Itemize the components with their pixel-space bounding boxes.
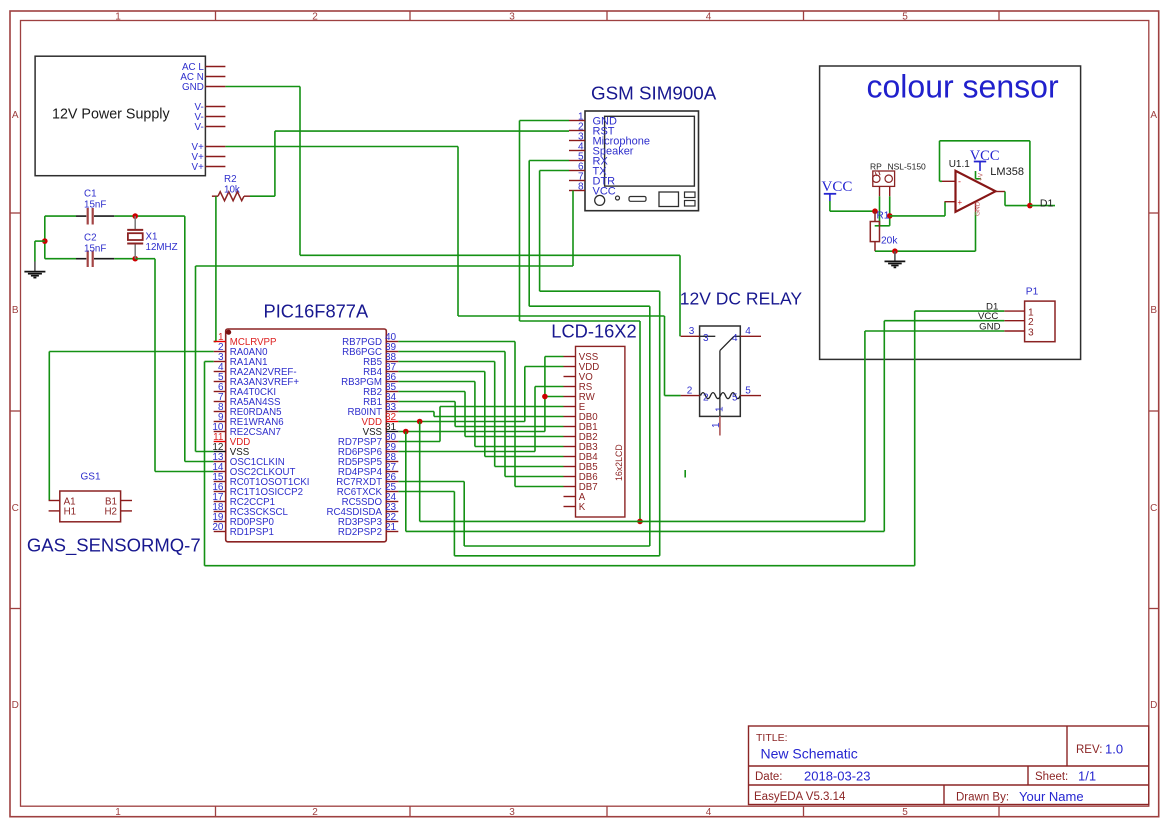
svg-text:1: 1: [115, 12, 121, 23]
svg-text:4: 4: [706, 807, 712, 818]
capacitor C1 plates: [88, 208, 93, 225]
relay coil pin 5 stub: [740, 395, 761, 397]
LCD pin RW: [564, 392, 596, 403]
capacitor C2 lead black left: [76, 258, 86, 260]
PIC pin 14 OSC2CLKOUT: [212, 462, 295, 478]
PIC pin 22 RD3PSP3: [338, 512, 398, 528]
wire: PIC pin34 to LCD DB1: [398, 402, 563, 427]
svg-text:20k: 20k: [881, 236, 898, 247]
svg-text:P1: P1: [1026, 287, 1039, 298]
wire: PIC pin30 to LCD E: [398, 407, 563, 442]
title block row divider 1: [749, 765, 1149, 767]
relay coil pin 2 stub: [681, 395, 700, 397]
PIC pin 21 RD2PSP2: [338, 522, 398, 538]
connector P1 body box: [1025, 301, 1055, 342]
svg-text:Your Name: Your Name: [1019, 789, 1084, 804]
svg-text:K: K: [579, 502, 586, 513]
svg-text:D1: D1: [1040, 197, 1054, 209]
LCD pin DB2: [564, 432, 598, 443]
photoresistor RP body: [873, 171, 895, 186]
title block outline: [749, 726, 1149, 805]
GSM pin 2 RST: [569, 122, 615, 138]
svg-text:4: 4: [706, 12, 712, 23]
frame column ticks top: [216, 11, 1000, 21]
PIC pin 34 RB1: [363, 392, 398, 408]
svg-text:5: 5: [902, 12, 908, 23]
wire: PIC pin39 to LCD DB6: [398, 352, 563, 477]
PIC pin 2 RA0AN0: [214, 342, 268, 358]
wire: osc bottom rail X1 node to corner: [135, 258, 155, 260]
PIC pin 23 RC4SDISDA: [327, 502, 399, 518]
gas sensor pin B1: [105, 496, 132, 507]
junction dot opamp output D1: [1027, 203, 1033, 209]
VCC net label above opamp: [970, 148, 1000, 171]
frame column labels bottom 1-5: [115, 807, 908, 818]
PIC pin 37 RB4: [363, 362, 398, 378]
svg-text:4: 4: [732, 333, 738, 344]
svg-text:C2: C2: [84, 233, 97, 244]
relay K1 body box: [700, 326, 741, 416]
wire: opamp GND pin down: [975, 212, 977, 251]
svg-text:12V DC RELAY: 12V DC RELAY: [680, 289, 803, 309]
PIC pin 26 RC7RXDT: [336, 472, 398, 488]
PIC pin 7 RA5AN4SS: [214, 392, 281, 408]
capacitor C2 lead black right: [94, 258, 114, 260]
title block REV divider: [1066, 726, 1068, 766]
svg-text:RP: RP: [870, 162, 882, 172]
PIC pin 32 VDD: [362, 412, 399, 428]
PIC pin 38 RB5: [363, 352, 398, 368]
svg-text:RD1PSP1: RD1PSP1: [230, 527, 274, 538]
GSM module small circle: [616, 196, 620, 200]
svg-text:U1.1: U1.1: [949, 159, 971, 170]
GSM pin 3 Microphone: [569, 132, 650, 148]
PIC pin 33 RB0INT: [348, 402, 399, 418]
svg-text:B: B: [12, 305, 19, 316]
frame column labels top 1-5: [115, 12, 908, 23]
relay pin 3 stub: [681, 335, 700, 337]
frame row ticks right: [1149, 213, 1159, 609]
wire: osc top rail X1 node to corner: [135, 215, 185, 217]
PIC pin 39 RB6PGC: [342, 342, 398, 358]
svg-text:5: 5: [902, 807, 908, 818]
svg-text:1: 1: [715, 406, 726, 412]
LCD pin K: [564, 502, 586, 513]
photoresistor RP left leg pin: [879, 186, 881, 196]
capacitor C1 lead black right: [94, 215, 114, 217]
PIC pin 3 RA1AN1: [214, 352, 268, 368]
LCD pin DB7: [564, 482, 598, 493]
svg-text:1: 1: [711, 422, 722, 428]
power supply pin V+ y=166.5: [192, 162, 226, 173]
resistor R2 zigzag body: [218, 192, 244, 201]
svg-text:16x2LCD: 16x2LCD: [614, 444, 624, 481]
PIC pin 28 RD5PSP5: [338, 452, 398, 468]
wire: GSM VCC pin8 to PIC pin12 net: [196, 191, 574, 452]
ground symbol GND2: [885, 251, 906, 267]
svg-text:H1: H1: [64, 507, 77, 518]
colour sensor outer box: [820, 66, 1081, 359]
svg-text:D: D: [1150, 700, 1157, 711]
crystal X1 leads: [134, 216, 136, 259]
wire: PIC pin38 to LCD DB5: [398, 362, 563, 467]
junction dot ground branch colour sensor: [892, 248, 898, 254]
LCD pin DB0: [564, 412, 599, 423]
relay pin 4 stub: [740, 335, 761, 337]
power supply pin V- y=126.5: [195, 122, 226, 133]
wire: opamp output to D1 node: [1005, 192, 1030, 206]
PIC pin 29 RD6PSP6: [338, 442, 398, 458]
wire: power GND to relay pin3 net: [225, 87, 680, 337]
wire: RP right leg: [889, 196, 891, 226]
svg-text:10k: 10k: [224, 185, 240, 196]
svg-text:21: 21: [385, 522, 397, 533]
power supply pin V- y=106.5: [195, 102, 226, 113]
crystal X1 plates and body: [127, 230, 143, 244]
P1 pin 1: [1004, 307, 1034, 318]
resistor R2 right lead: [244, 195, 250, 197]
svg-text:+: +: [958, 198, 963, 207]
LCD pin RS: [564, 382, 593, 393]
svg-text:Sheet:: Sheet:: [1035, 771, 1068, 783]
PIC pin 13 OSC1CLKIN: [212, 452, 284, 468]
wire: osc top rail C1 to X1 node: [114, 215, 135, 217]
svg-text:X1: X1: [146, 232, 158, 243]
svg-text:V-: V-: [195, 122, 204, 133]
junction dot X1 bottom node: [132, 256, 138, 262]
photoresistor RP right leg pin: [889, 186, 891, 196]
GSM module small pad 1: [685, 192, 696, 198]
GSM module inner screen box: [605, 116, 695, 186]
opamp plus input stub: [945, 201, 956, 203]
svg-text:VCC: VCC: [593, 186, 616, 198]
LCD1 body box: [576, 346, 625, 517]
resistor R1 body box: [870, 222, 879, 242]
svg-text:Drawn By:: Drawn By:: [956, 792, 1009, 804]
PIC pin 24 RC5SDO: [342, 492, 399, 508]
gas sensor pin H1: [49, 507, 77, 518]
svg-text:12MHZ: 12MHZ: [146, 242, 178, 253]
title block row divider 2: [749, 784, 1149, 786]
opamp minus input stub: [941, 180, 956, 182]
opamp U1.1 triangle: [956, 171, 996, 212]
svg-text:20: 20: [212, 522, 224, 533]
svg-text:3: 3: [1028, 327, 1034, 338]
svg-text:4: 4: [745, 326, 751, 337]
wire: osc bottom rail left of C2: [45, 258, 76, 260]
power supply PS1 box: [35, 56, 205, 176]
svg-text:15nF: 15nF: [84, 244, 106, 255]
PIC pin 10 RE2CSAN7: [212, 422, 281, 438]
GSM module small pad 2: [685, 201, 696, 207]
wire: pin31 node down to pin21 row bus to P1 VCC: [406, 432, 885, 532]
LCD pin VDD: [564, 362, 600, 373]
PIC pin 9 RE1WRAN6: [214, 412, 284, 428]
svg-text:R1: R1: [877, 210, 890, 221]
GSM module big circle: [595, 195, 605, 205]
GSM pin 4 Speaker: [569, 142, 634, 158]
wire: opamp feedback loop: [940, 141, 1030, 206]
svg-text:TITLE:: TITLE:: [756, 732, 788, 744]
wire: GSM TX pin6 to PIC RC6 net: [398, 171, 659, 556]
svg-text:3: 3: [509, 12, 515, 23]
wire: PIC pin3 RA1 to P1 D1 long bottom net: [205, 362, 915, 566]
capacitor C2 plates: [88, 251, 93, 268]
wire: RP legs joining bar: [875, 225, 890, 227]
PIC16F877A U1 body box: [226, 329, 387, 542]
LCD pin A: [564, 492, 586, 503]
PIC pin 4 RA2AN2VREF-: [214, 362, 297, 378]
svg-text:H2: H2: [104, 507, 117, 518]
PIC pin 25 RC6TXCK: [337, 482, 399, 498]
PIC pin 31 VSS: [363, 422, 399, 438]
wire: PIC pin40 to LCD DB7: [398, 342, 563, 487]
junction dot VCC/R1/RP node: [872, 208, 878, 214]
junction dot X1 top node: [132, 213, 138, 219]
capacitor C1 lead black left: [76, 215, 86, 217]
wire: osc bottom rail C2 to X1 node: [114, 258, 135, 260]
svg-text:New Schematic: New Schematic: [761, 746, 858, 762]
wire: PIC pin36 to LCD DB3: [398, 382, 563, 447]
PIC pin 20 RD1PSP1: [212, 522, 274, 538]
LCD pin VSS: [564, 352, 599, 363]
junction dot ground branch node: [42, 238, 48, 244]
wire: pin32 node down to bottom bus VDD/GND: [420, 422, 865, 522]
svg-text:R2: R2: [224, 174, 237, 185]
title block Sheet divider: [1027, 766, 1029, 785]
wire: osc top rail left of C1: [45, 215, 76, 217]
PIC pin1 indicator dot: [226, 330, 231, 335]
gas sensor GS1 body box: [60, 491, 121, 522]
PIC pin 12 VSS: [212, 442, 249, 458]
power supply pin AC L y=66.5: [182, 62, 225, 73]
svg-text:A: A: [12, 110, 19, 121]
svg-text:GND: GND: [975, 201, 982, 216]
junction dot PIC pin31: [403, 429, 409, 435]
relay armature pole line: [719, 351, 721, 417]
gas sensor pin H2: [104, 507, 132, 518]
svg-text:D: D: [12, 700, 19, 711]
svg-text:EasyEDA V5.3.14: EasyEDA V5.3.14: [754, 791, 846, 803]
resistor R1 top lead: [874, 211, 876, 221]
PIC pin 27 RD4PSP4: [338, 462, 398, 478]
svg-text:-: -: [958, 177, 961, 187]
PIC pin 36 RB3PGM: [341, 372, 398, 388]
svg-text:1.0: 1.0: [1105, 742, 1123, 757]
svg-text:1: 1: [115, 807, 121, 818]
wire: PIC pin37 to LCD DB4: [398, 372, 563, 457]
svg-text:8: 8: [578, 182, 584, 193]
frame row labels left A-D: [12, 110, 19, 711]
svg-text:2018-03-23: 2018-03-23: [804, 769, 871, 784]
PIC pin 6 RA4T0CKI: [214, 382, 276, 398]
svg-text:B: B: [1150, 305, 1157, 316]
frame column ticks bottom: [216, 806, 1000, 817]
svg-text:2: 2: [312, 12, 318, 23]
svg-text:3: 3: [509, 807, 515, 818]
VCC net label left: [822, 179, 853, 201]
wire: R2 to GSM RST: [250, 131, 569, 196]
svg-text:C1: C1: [84, 189, 97, 200]
PIC pin 40 RB7PGD: [342, 332, 398, 348]
PIC pin 17 RC2CCP1: [212, 492, 275, 508]
frame row ticks left: [10, 213, 21, 609]
PIC pin 11 VDD: [213, 432, 250, 448]
power supply pin GND y=86.5: [182, 82, 225, 93]
LCD pin DB1: [564, 422, 598, 433]
junction dot PIC pin32: [417, 419, 423, 425]
svg-text:LM358: LM358: [990, 166, 1024, 178]
GSM module U2 outer box: [585, 111, 699, 211]
resistor R2 left lead + wire: [212, 195, 218, 197]
wire: R1 bottom to opamp GND bottom rail: [875, 250, 976, 252]
PIC pin 30 RD7PSP7: [338, 432, 398, 448]
relay pin 3 contact: [700, 335, 716, 337]
wire: PIC pin29 to LCD RS: [398, 387, 563, 452]
wire: OSC1 vertical down to PIC pin13: [185, 216, 214, 461]
resistor R1 bottom lead: [874, 242, 876, 252]
svg-text:GAS_SENSORMQ-7: GAS_SENSORMQ-7: [27, 535, 201, 557]
svg-text:15nF: 15nF: [84, 200, 106, 211]
wire: P1 pin1 D1 to bottom bus: [915, 311, 1005, 566]
PIC pin 15 RC0T1OSOT1CKI: [212, 472, 309, 488]
svg-text:GND: GND: [182, 82, 204, 93]
svg-text:A: A: [1150, 110, 1157, 121]
wire: P1 pin3 GND to bottom bus: [865, 331, 1004, 521]
PIC pin 19 RD0PSP0: [212, 512, 274, 528]
wire: OSC2 vertical down to PIC pin14: [155, 259, 214, 472]
ground symbol GND1: [24, 262, 45, 278]
svg-text:GSM SIM900A: GSM SIM900A: [591, 83, 717, 104]
svg-text:+V: +V: [978, 172, 985, 181]
svg-text:GS1: GS1: [81, 472, 101, 483]
relay coil squiggle: [701, 393, 741, 399]
wire: P1 pin2 VCC to bottom bus: [884, 321, 1004, 532]
wire: capacitors left rail vertical: [44, 216, 46, 259]
svg-text:1/1: 1/1: [1078, 769, 1096, 784]
LCD pin DB6: [564, 472, 598, 483]
svg-text:colour sensor: colour sensor: [867, 69, 1059, 105]
svg-text:V+: V+: [192, 162, 205, 173]
PIC pin 18 RC3SCKSCL: [212, 502, 288, 518]
PIC pin 35 RB2: [363, 382, 398, 398]
wire: PIC pin35 to LCD DB2: [398, 392, 563, 437]
power supply pin AC N y=76.5: [180, 72, 225, 83]
svg-text:VCC: VCC: [822, 179, 853, 195]
wire: PIC pin2 RA0 to gas sensor A1: [49, 352, 213, 501]
junction dot LCD RW: [542, 394, 548, 400]
wire: GSM GND pin1 down to VDD/GND net: [520, 121, 641, 522]
svg-text:3: 3: [703, 333, 709, 344]
junction dot RP right leg to opamp input: [887, 213, 893, 219]
GSM pin 1 GND: [569, 112, 617, 128]
wire: power V+ to relay pin2 net: [225, 147, 680, 396]
title block DrawnBy divider: [943, 785, 945, 805]
P1 pin 2: [1004, 317, 1034, 328]
LCD pin DB3: [564, 442, 598, 453]
wire: PIC pin32 VDD to LCD VDD: [398, 367, 563, 422]
GSM module square pad: [659, 192, 679, 207]
PIC pin 16 RC1T1OSICCP2: [212, 482, 303, 498]
wire: R2 down to PIC MCLR pin1: [214, 196, 216, 341]
wire: RP left leg: [879, 196, 881, 226]
svg-text:2: 2: [312, 807, 318, 818]
GSM pin 7 DTR: [569, 172, 615, 188]
opamp GND pin stub: [975, 202, 977, 212]
junction dot GSM-GND net joins bottom bus: [637, 519, 643, 525]
power supply pin V+ y=146.5: [192, 142, 226, 153]
gas sensor pin A1: [49, 496, 76, 507]
GSM pin 5 RX: [569, 152, 608, 168]
wire: PIC pin33 to LCD DB0: [398, 412, 563, 417]
svg-text:C: C: [1150, 503, 1157, 514]
svg-text:3: 3: [689, 326, 695, 337]
GSM pin 8 VCC: [569, 182, 616, 198]
wire: GSM RX pin5 to PIC RC7 net: [398, 161, 650, 547]
svg-text:NSL-5150: NSL-5150: [888, 162, 927, 172]
svg-text:5: 5: [745, 386, 751, 397]
wire: VCC to R1 top node: [830, 201, 875, 211]
PIC pin 1 MCLRVPP: [214, 332, 277, 348]
svg-text:LCD-16X2: LCD-16X2: [551, 321, 636, 342]
LCD pin DB5: [564, 462, 598, 473]
LCD pin DB4: [564, 452, 599, 463]
wire: opamp plus input from RP: [890, 202, 945, 216]
GSM module rounded slot: [629, 197, 646, 202]
wire: stub to ground GND1: [35, 241, 45, 261]
PIC pin 5 RA3AN3VREF+: [214, 372, 300, 388]
power supply pin V+ y=156.5: [192, 152, 226, 163]
svg-text:2: 2: [703, 393, 709, 404]
GSM pin 6 TX: [569, 162, 607, 178]
power supply pin V- y=116.5: [195, 112, 226, 123]
PIC pin 8 RE0RDAN5: [214, 402, 282, 418]
LCD pin VO: [564, 372, 594, 383]
svg-text:Date:: Date:: [755, 771, 783, 783]
P1 pin 3: [1004, 327, 1034, 338]
relay pin 1 stub downward: [719, 416, 721, 435]
relay pin 4 contact and switch arm: [720, 336, 740, 350]
D1 output wire tail: [1030, 205, 1055, 207]
svg-text:PIC16F877A: PIC16F877A: [264, 301, 369, 322]
frame row labels right A-D: [1150, 110, 1157, 711]
stray wire stub artifact: [684, 470, 686, 478]
svg-text:12V Power Supply: 12V Power Supply: [52, 107, 170, 123]
svg-text:REV:: REV:: [1076, 744, 1102, 756]
opamp output stub: [995, 191, 1005, 193]
wire: PIC pin31 VSS to LCD RW and VSS: [398, 357, 563, 432]
LCD pin E: [564, 402, 586, 413]
svg-text:2: 2: [687, 386, 693, 397]
svg-text:C: C: [12, 503, 19, 514]
svg-text:RD2PSP2: RD2PSP2: [338, 527, 382, 538]
wire: VCC to opamp V+ pin: [976, 171, 982, 179]
svg-text:5: 5: [732, 393, 738, 404]
